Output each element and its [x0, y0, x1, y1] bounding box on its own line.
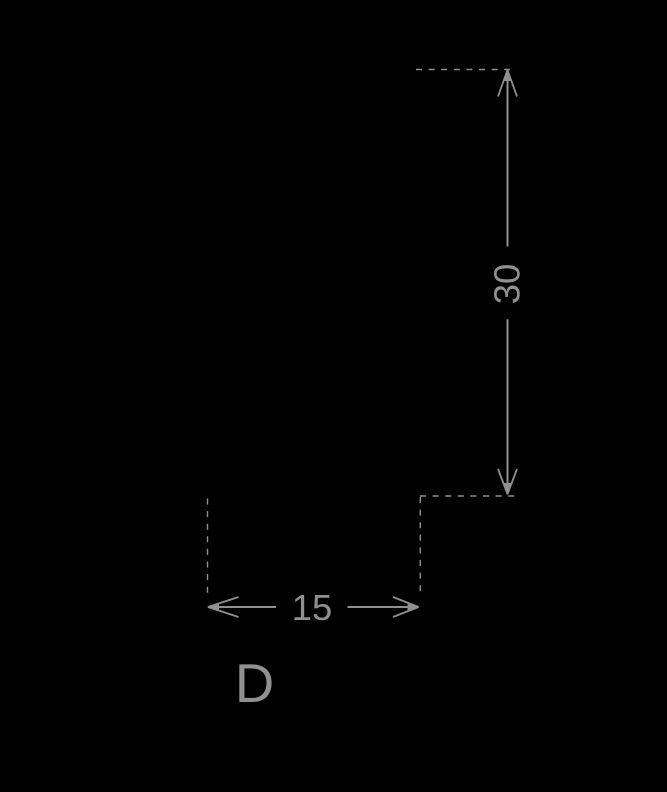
svg-text:D: D [235, 653, 274, 714]
arrowhead left (left end of horizontal dimension) [207, 597, 239, 617]
dashed extension line, right vertical [419, 497, 421, 593]
dashed extension line, left vertical [207, 499, 209, 595]
arrowhead up (top of vertical dimension) [498, 69, 517, 97]
arrowhead right (right end of horizontal dimension) [393, 597, 420, 617]
arrowhead down (bottom of vertical dimension) [498, 469, 517, 495]
vertical dimension line, lower segment [507, 319, 509, 494]
svg-text:30: 30 [486, 264, 527, 305]
dashed extension line, top horizontal [416, 69, 511, 71]
dashed extension line, bottom horizontal [420, 495, 516, 497]
horizontal dimension line, right segment [348, 606, 419, 608]
vertical dimension line, upper segment [507, 70, 509, 247]
horizontal dimension line, left segment [208, 606, 276, 608]
svg-text:15: 15 [292, 587, 333, 628]
